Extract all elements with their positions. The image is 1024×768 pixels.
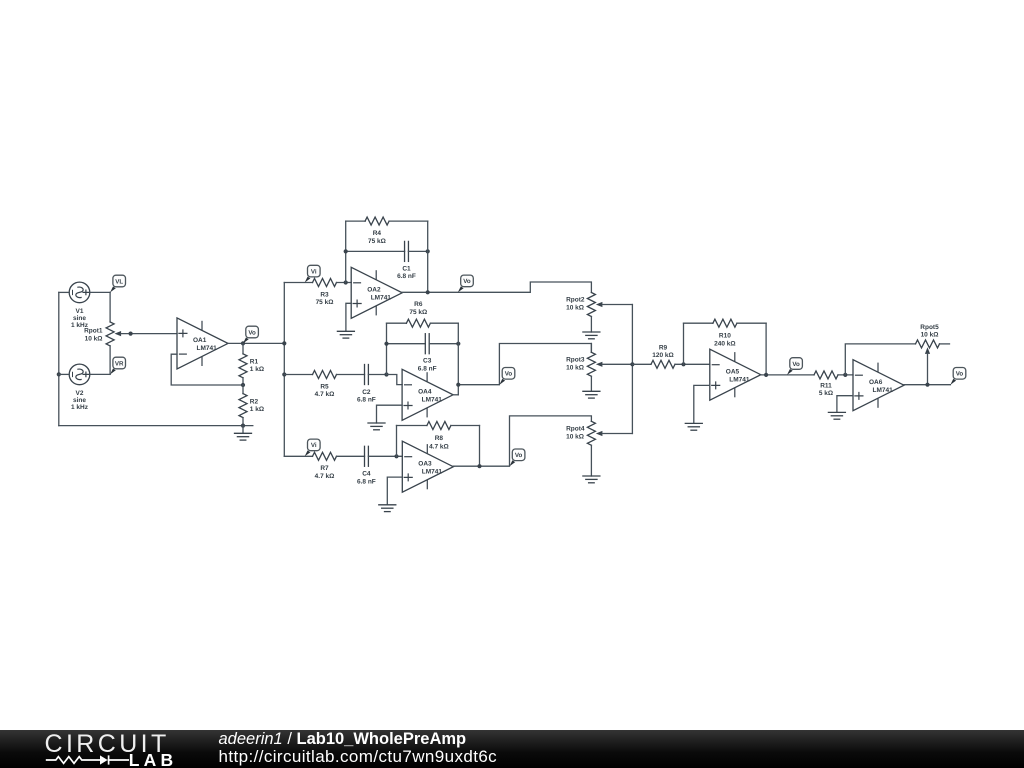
resistor R3 [313,279,352,287]
wire OA4 plus to ground [377,405,403,423]
voltage source V1 [59,282,110,303]
label R11 value [819,383,833,398]
svg-text:10 kΩ: 10 kΩ [85,335,103,342]
op-amp OA2 [351,267,402,318]
label Rpot1 value [84,327,103,342]
svg-text:sine: sine [73,315,86,322]
label C4 value [357,471,376,486]
label R3 value [316,291,334,306]
capacitor C1 [346,241,428,261]
node junction C1 right [426,249,430,253]
svg-text:Rpot5: Rpot5 [920,324,939,331]
label V2 value [71,390,89,411]
node junction C2 out [384,372,388,376]
svg-text:LM741: LM741 [197,345,218,352]
svg-text:VR: VR [115,360,124,367]
node junction R11 feedback [843,373,847,377]
svg-text:6.8 nF: 6.8 nF [397,273,416,280]
resistor R5 [284,371,364,379]
wire OA3 output [453,416,591,466]
ground Rpot4 [583,476,600,483]
svg-text:Vo: Vo [515,452,523,459]
potentiometer Rpot3 [587,344,632,392]
svg-text:R1: R1 [250,358,259,365]
node VR flag [110,357,125,374]
node Vo flag stage5 [787,358,802,375]
svg-text:C4: C4 [362,471,371,478]
svg-text:240 kΩ: 240 kΩ [714,340,735,347]
node junction R1 R2 [241,383,245,387]
node junction V2 left [57,372,61,376]
svg-text:OA4: OA4 [418,389,432,396]
potentiometer Rpot2 [587,293,632,333]
potentiometer Rpot1 [106,292,177,374]
svg-text:10 kΩ: 10 kΩ [566,304,584,311]
wire OA2 plus to ground [346,303,351,331]
svg-text:75 kΩ: 75 kΩ [368,238,386,245]
svg-text:10 kΩ: 10 kΩ [566,433,584,440]
potentiometer Rpot4 [587,421,632,476]
resistor R10 feedback [684,319,767,327]
op-amp OA1 [177,318,228,369]
svg-text:LM741: LM741 [371,295,392,302]
ground stage1 [235,426,252,441]
wire stage5 feedback right [765,323,767,375]
wire OA1 output [228,342,284,344]
label R1 value [250,358,264,373]
resistor R6 feedback [387,319,459,327]
node junction OA3 out [477,464,481,468]
svg-text:Vi: Vi [311,442,317,449]
label Rpot3 value [566,356,585,371]
label Rpot4 value [566,425,585,440]
op-amp OA5 [710,349,761,400]
label R8 value [429,435,449,450]
svg-text:75 kΩ: 75 kΩ [409,309,427,316]
svg-text:Vo: Vo [463,278,471,285]
node junction bus OA1 out [282,341,286,345]
svg-text:10 kΩ: 10 kΩ [921,331,939,338]
ground OA6 [828,412,845,419]
ground OA4 [368,423,385,430]
wire OA4 output [453,344,591,395]
wire stage3 feedback right [457,323,459,395]
svg-text:LM741: LM741 [422,397,443,404]
svg-text:OA2: OA2 [367,287,381,294]
svg-text:LM741: LM741 [873,387,894,394]
potentiometer Rpot5 [916,340,950,385]
node junction C4 out [394,454,398,458]
label C1 value [397,265,416,280]
node junction mixer bus [630,362,634,366]
svg-text:4.7 kΩ: 4.7 kΩ [429,443,449,450]
svg-text:OA5: OA5 [726,369,740,376]
svg-text:V1: V1 [76,308,84,315]
svg-text:R8: R8 [435,435,444,442]
node junction pot1 wiper [129,332,133,336]
op-amp OA3 [402,441,453,492]
wire OA6 plus to ground [837,396,853,413]
node junction bus mid branch [282,372,286,376]
label R10 value [714,333,735,348]
node junction C1 left [344,249,348,253]
svg-text:R5: R5 [320,383,329,390]
wire stage2 feedback left [345,221,347,282]
ground OA5 [685,423,702,430]
logo resistor-diode glyph [44,753,130,767]
label C2 value [357,389,376,404]
wire OA5 output [761,374,814,376]
capacitor C4 [365,446,403,466]
resistor R8 feedback [397,422,480,430]
label R7 value [315,465,335,480]
resistor R7 [313,452,365,460]
label R4 value [368,230,386,245]
wire stage2 input [284,282,312,284]
svg-text:C3: C3 [423,358,432,365]
svg-text:Rpot3: Rpot3 [566,356,585,363]
resistor R2 [239,385,247,426]
svg-text:Vo: Vo [956,371,964,378]
resistor R1 [239,343,247,385]
svg-text:10 kΩ: 10 kΩ [566,364,584,371]
svg-text:Vo: Vo [792,361,800,368]
wire OA4 inverting step [387,375,403,385]
node junction Rpot5 wiper out [925,383,929,387]
svg-text:4.7 kΩ: 4.7 kΩ [315,473,335,480]
op-amp OA4 [402,369,453,420]
label R5 value [315,383,335,398]
svg-text:OA1: OA1 [193,337,207,344]
label R6 value [409,301,427,316]
svg-text:Vo: Vo [505,371,513,378]
label R2 value [250,399,264,414]
label Rpot2 value [566,296,585,311]
svg-text:R11: R11 [820,383,832,390]
svg-text:R6: R6 [414,301,423,308]
svg-text:OA3: OA3 [418,461,432,468]
node junction OA1 output [241,341,245,345]
wire OA1 feedback [171,354,243,385]
resistor R9 [632,360,709,368]
capacitor C2 [365,365,387,385]
svg-text:5 kΩ: 5 kΩ [819,390,833,397]
svg-text:C1: C1 [402,265,411,272]
node Vo flag stage4 [510,449,525,466]
svg-text:LM741: LM741 [422,469,443,476]
svg-text:R9: R9 [659,344,668,351]
node junction C3 left [384,342,388,346]
svg-text:Vi: Vi [311,268,317,275]
wire OA2 output [402,282,591,293]
node junction R9 feedback [681,362,685,366]
node junction OA2 feedback out [426,290,430,294]
svg-text:6.8 nF: 6.8 nF [418,365,437,372]
wire left bus from V1 to ground rail [58,292,60,425]
node junction ground rail [241,424,245,428]
wire stage6 feedback [845,344,915,375]
resistor R4 feedback [346,217,428,225]
ground Rpot3 [583,391,600,398]
wire stage3 feedback left [386,323,388,374]
svg-text:4.7 kΩ: 4.7 kΩ [315,391,335,398]
svg-text:VL: VL [115,278,123,285]
svg-text:LM741: LM741 [729,377,750,384]
wire stage5 feedback left [683,323,685,364]
wire input bus vertical [283,283,285,457]
node Vo flag stage1 [243,326,258,343]
svg-text:OA6: OA6 [869,379,883,386]
node Vo flag stage3 [499,368,514,385]
node junction C3 right [456,342,460,346]
svg-text:1 kΩ: 1 kΩ [250,366,264,373]
svg-text:Rpot4: Rpot4 [566,425,585,432]
node Vo flag stage2 [458,275,473,292]
node Vi flag stage4 [305,439,320,456]
ground OA3 [379,505,396,512]
wire bottom ground rail [59,425,253,427]
svg-text:1 kΩ: 1 kΩ [250,406,264,413]
label V1 value [71,308,89,329]
svg-text:sine: sine [73,397,86,404]
wire OA5 plus to ground [694,385,710,423]
svg-text:6.8 nF: 6.8 nF [357,478,376,485]
ground OA2 [337,331,354,338]
svg-text:R10: R10 [719,333,731,340]
svg-text:1 kHz: 1 kHz [71,404,89,411]
node junction R3 feedback [344,280,348,284]
wire mixer bus [631,305,633,434]
CircuitLab logo wordmark [45,732,170,757]
node junction OA5 out [764,373,768,377]
svg-text:R3: R3 [320,291,329,298]
svg-text:R2: R2 [250,399,259,406]
ground Rpot2 [583,332,600,339]
wire stage4 feedback right [479,426,481,467]
node Vo flag stage6 [950,368,965,385]
resistor R11 [814,371,853,379]
node junction OA4 out [456,383,460,387]
label R9 value [652,344,673,359]
voltage source V2 [59,364,110,385]
op-amp OA6 [853,360,904,411]
wire stage4 input [284,455,312,457]
node Vi flag stage2 [305,265,320,282]
svg-text:Rpot1: Rpot1 [84,327,103,334]
label C3 value [418,358,437,373]
svg-text:75 kΩ: 75 kΩ [316,299,334,306]
svg-text:120 kΩ: 120 kΩ [652,352,673,359]
svg-text:C2: C2 [362,389,371,396]
wire stage4 feedback left [396,426,398,457]
wire stage2 feedback right [427,221,429,292]
wire OA6 output [904,384,950,386]
wire OA3 plus to ground [387,477,402,505]
node VL flag [110,275,125,292]
svg-text:Vo: Vo [248,329,256,336]
svg-text:V2: V2 [76,390,84,397]
label Rpot5 value [920,324,939,339]
capacitor C3 [387,334,459,354]
svg-text:R4: R4 [373,230,382,237]
svg-text:6.8 nF: 6.8 nF [357,397,376,404]
svg-text:Rpot2: Rpot2 [566,296,585,303]
svg-text:R7: R7 [320,465,329,472]
